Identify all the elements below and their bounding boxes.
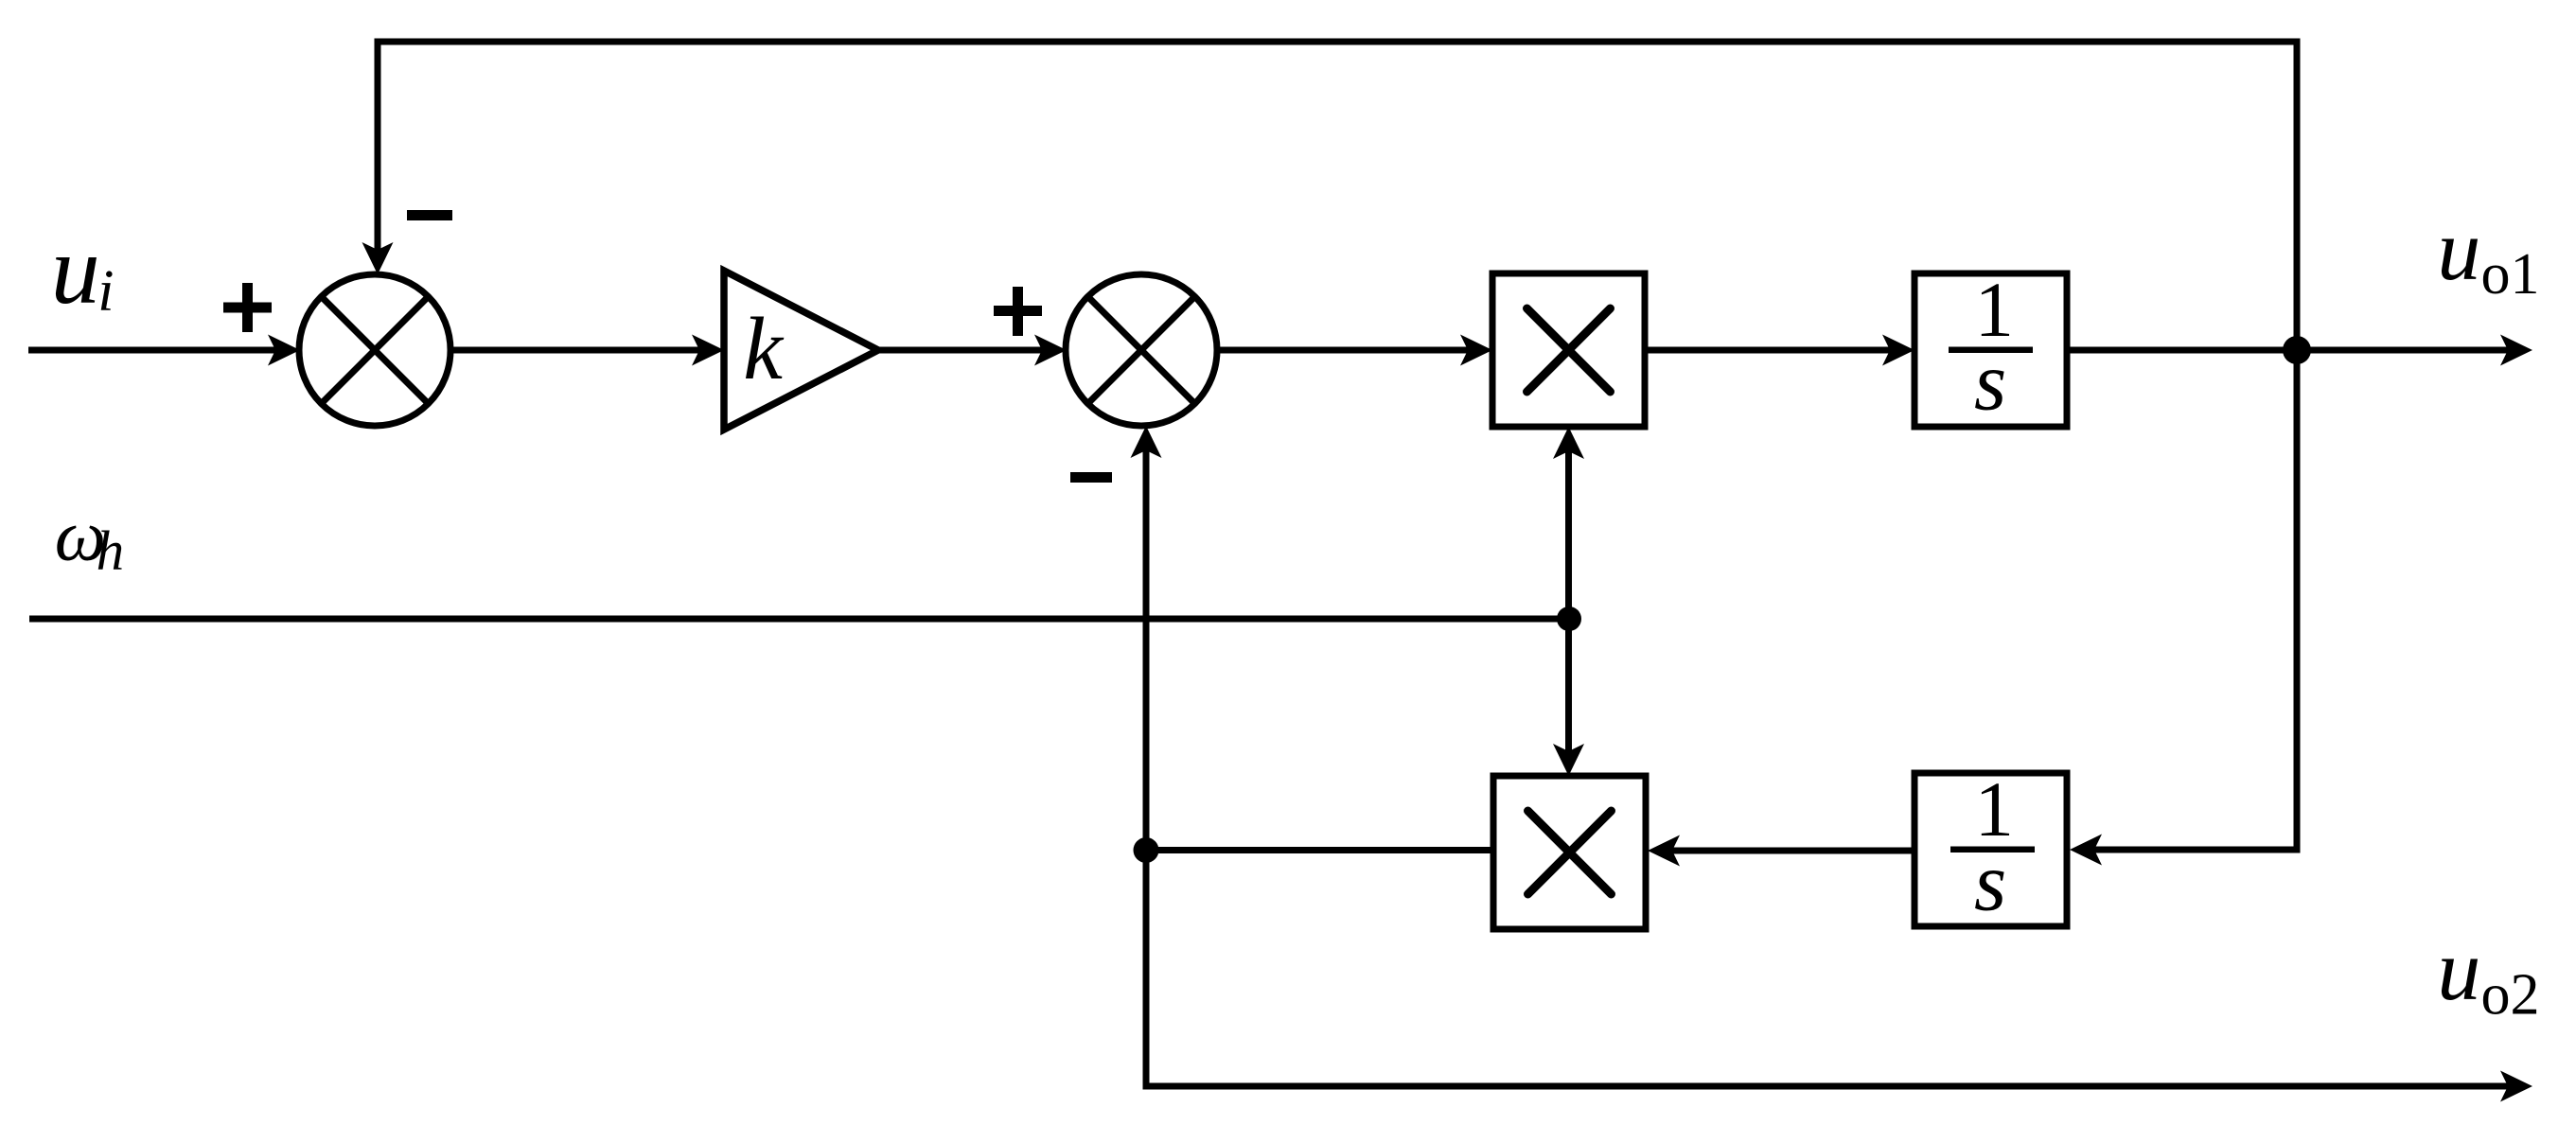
arrowhead into multiplier M1 <box>1460 335 1492 366</box>
wire: omega_h input line <box>29 616 1569 623</box>
svg-text:h: h <box>97 519 125 582</box>
multiplier M1 (box with X) <box>1492 273 1645 427</box>
arrowhead output u_o2 <box>2500 1071 2532 1102</box>
arrowhead up into bottom of M1 <box>1553 427 1584 459</box>
arrowhead output u_o1 <box>2500 335 2532 366</box>
wire: S2 to multiplier M1 <box>1217 347 1469 354</box>
svg-text:u: u <box>2437 922 2480 1018</box>
wire: node up into bottom of S2, and down then right as u_o2 output <box>1146 449 2509 1086</box>
summing junction S2 (circle with X) <box>1066 274 1217 426</box>
arrowhead into summing junction S2 <box>1034 335 1067 366</box>
wire: input u_i <box>28 347 276 354</box>
wire: M2 output to left junction node <box>1146 847 1493 853</box>
node: junction dot left of M2 <box>1134 837 1159 863</box>
wire: M1 to integrator I1 <box>1645 347 1891 354</box>
integrator I2 (1/s box, bottom) <box>1914 773 2067 926</box>
arrowhead into integrator I1 <box>1882 335 1914 366</box>
svg-text:o1: o1 <box>2481 242 2540 307</box>
wire: S1 to amplifier k <box>450 347 700 354</box>
wire: amplifier k to summing junction S2 <box>878 347 1043 354</box>
integrator I1 (1/s box) <box>1914 273 2067 427</box>
svg-text:u: u <box>51 216 100 325</box>
multiplier M2 (box with X) <box>1493 776 1646 929</box>
wire: vertical from omega_h node up to M1 and down to M2 <box>1565 450 1572 752</box>
svg-text:i: i <box>97 259 114 324</box>
wire: top feedback path from summing junction S1 up over to right vertical down to bottom integrator <box>378 42 2297 850</box>
svg-text:o2: o2 <box>2481 962 2540 1027</box>
plus sign at S1 input <box>223 303 272 313</box>
arrowhead down into top of M2 <box>1553 744 1584 776</box>
wire: I2 output to M2 right input <box>1671 848 1914 854</box>
minus sign at S2 lower input <box>1070 472 1112 483</box>
minus sign at S1 <box>407 210 452 220</box>
node: junction dot on u_o1 line <box>2283 336 2311 364</box>
svg-text:u: u <box>2437 202 2480 298</box>
arrowhead into right side of bottom integrator <box>2070 835 2102 866</box>
wire: I1 to output u_o1 <box>2067 347 2509 354</box>
arrowhead up into bottom of S2 <box>1131 426 1162 458</box>
node: junction dot on omega_h line <box>1557 606 1581 631</box>
plus sign at S2 input <box>994 306 1042 316</box>
svg-text:s: s <box>1974 836 2006 928</box>
summing junction S1 (circle with X) <box>299 274 450 426</box>
amplifier k (triangle) <box>724 271 878 430</box>
svg-text:s: s <box>1974 336 2006 428</box>
arrowhead into summing junction S1 <box>268 335 300 366</box>
svg-text:k: k <box>743 300 785 398</box>
arrowhead into right side of M2 <box>1648 835 1680 867</box>
arrowhead into top of summing junction S1 <box>362 242 394 274</box>
arrowhead into amplifier k <box>692 335 724 366</box>
